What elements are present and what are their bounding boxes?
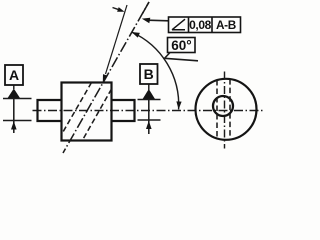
short arrow segment pointing at wall extension xyxy=(113,8,119,10)
datum B dimension arrowhead xyxy=(146,121,152,129)
shaft main cylinder xyxy=(62,83,112,141)
datum B top extension line xyxy=(138,99,161,101)
right journal xyxy=(112,100,135,121)
svg-text:B: B xyxy=(144,66,154,82)
feature control frame outline xyxy=(169,17,241,33)
datum A dimension arrowhead xyxy=(11,121,17,129)
datum A dimension line xyxy=(13,99,15,134)
hole hidden line right xyxy=(229,79,231,139)
frame divider 2 xyxy=(211,17,213,33)
inclined hole hidden wall right xyxy=(82,89,111,141)
frame divider 1 xyxy=(188,17,190,33)
datum B triangle xyxy=(142,89,155,100)
datum B box xyxy=(140,64,158,84)
datum A bottom extension line xyxy=(3,120,32,122)
datum A top extension line xyxy=(3,98,32,100)
end view hole circle xyxy=(213,96,233,116)
leader line from frame to hole axis xyxy=(148,19,169,22)
inclined hole hidden wall left xyxy=(62,83,92,135)
shaft axis centerline xyxy=(33,110,264,112)
hole axis top solid end xyxy=(143,2,150,14)
arc top arrowhead on hole axis xyxy=(132,32,140,38)
hole hidden line left xyxy=(216,80,218,139)
leader arrowhead xyxy=(142,18,151,23)
datum B bottom extension line xyxy=(138,119,161,121)
angularity symbol xyxy=(172,19,185,30)
datum A triangle xyxy=(7,89,20,99)
leader arrowhead at part surface xyxy=(103,74,108,82)
svg-text:0,08: 0,08 xyxy=(189,18,211,32)
60 degree label box xyxy=(168,38,196,53)
datum B stem xyxy=(148,84,150,90)
left journal xyxy=(38,100,62,121)
arc bottom arrowhead on shaft axis xyxy=(176,101,181,109)
tick from label box to arc xyxy=(165,53,199,61)
end view vertical centerline xyxy=(224,72,226,149)
inclined hole axis xyxy=(63,2,149,153)
svg-text:60°: 60° xyxy=(171,38,191,53)
end view outer circle xyxy=(196,79,257,140)
svg-text:A-B: A-B xyxy=(216,18,236,32)
svg-text:A: A xyxy=(9,67,19,83)
datum A stem xyxy=(13,85,15,89)
60 degree dimension arc xyxy=(132,32,179,109)
datum A box xyxy=(5,65,23,85)
datum B dimension line xyxy=(148,100,150,135)
leader line along hole axis xyxy=(106,5,128,74)
